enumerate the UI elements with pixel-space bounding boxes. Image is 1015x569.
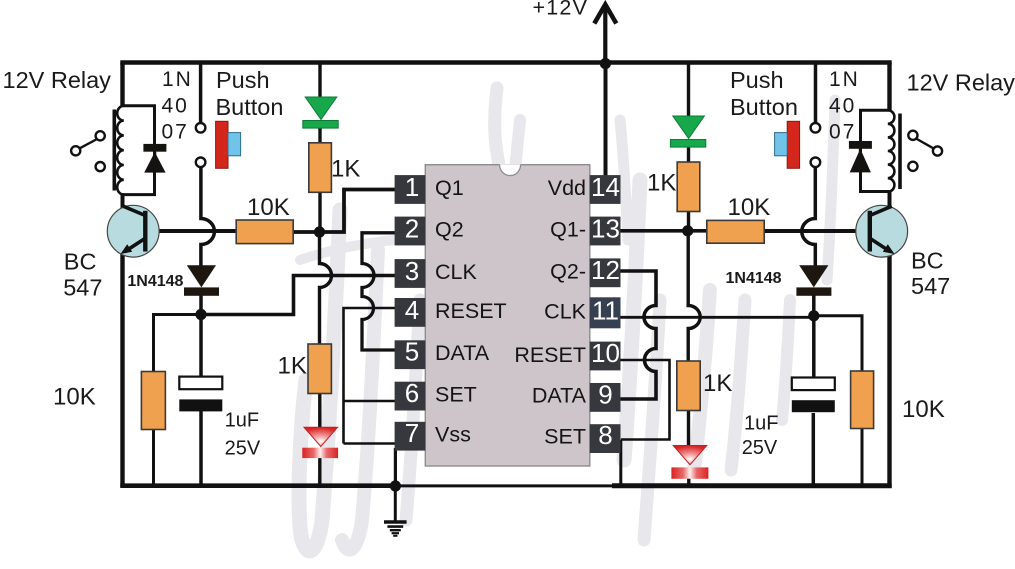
wire left push button bottom to 1N4148 (201, 167, 215, 266)
resistor R8 10K right vertical (851, 371, 874, 429)
wire right upper 1K to node D (687, 211, 690, 231)
svg-text:10K: 10K (53, 384, 96, 411)
capacitor C1 left 1uF (179, 377, 222, 412)
wire pin 2 to pin 5 with two hops (362, 233, 395, 350)
wire right push button top (814, 63, 818, 124)
svg-text:10K: 10K (902, 396, 945, 423)
wire pin 3 CLK to node A (206, 276, 395, 315)
wire left 1N4148 to node A to capacitor (199, 295, 203, 378)
wire pin 8 down to bottom rail (619, 440, 622, 487)
transistor Q2 BC547 right (856, 205, 908, 257)
IC pin labels (435, 176, 587, 449)
wire pin 6 SET to ground bus (344, 400, 396, 403)
svg-text:1N4148: 1N4148 (726, 270, 782, 287)
wire left transistor base with hop (144, 229, 237, 233)
wire top rail to right green LED (687, 63, 690, 117)
wire 1N4007 left lead (153, 152, 156, 173)
wire right transistor emitter to bottom rail (887, 251, 891, 488)
wire right capacitor to bottom rail (812, 413, 816, 488)
LED green left (303, 97, 338, 128)
wire left transistor emitter to bottom rail (120, 251, 124, 488)
svg-text:1uF: 1uF (744, 413, 778, 435)
relay RL2 right box (861, 110, 890, 191)
svg-text:40: 40 (162, 95, 189, 118)
relay RL1 core bar (113, 110, 117, 191)
relay RL1 coil (117, 106, 124, 195)
svg-text:8: 8 (598, 420, 612, 450)
svg-text:1N: 1N (162, 68, 193, 91)
capacitor C2 right 1uF (792, 378, 835, 413)
wire right 1N4148 to node C to capacitor (812, 295, 816, 379)
relay RL1 contacts (71, 131, 105, 171)
diode D3 1N4007 right (849, 141, 872, 172)
wire bottom rail middle thin (396, 484, 612, 487)
wire left border top stub (120, 63, 124, 108)
svg-text:12V Relay: 12V Relay (907, 70, 1015, 96)
wire right red LED to bottom rail (687, 478, 690, 488)
svg-text:Button: Button (216, 94, 284, 120)
wire pin 12 to pin 9 with two hops (621, 271, 657, 399)
svg-text:25V: 25V (742, 437, 778, 459)
svg-text:547: 547 (63, 275, 102, 301)
resistor R7 1K right lower (677, 361, 700, 411)
svg-text:1N4148: 1N4148 (127, 273, 183, 290)
svg-text:547: 547 (911, 273, 950, 299)
LED red right (671, 446, 708, 479)
wire +12V arrow stem (603, 8, 607, 63)
+12V junction dot (600, 58, 611, 69)
svg-text:Q1-: Q1- (550, 218, 586, 242)
node C junction dot right (808, 310, 819, 321)
wire right 10K to transistor base with hop (764, 229, 871, 233)
svg-text:40: 40 (829, 95, 856, 118)
svg-text:1N: 1N (829, 68, 860, 91)
svg-text:SET: SET (544, 425, 586, 449)
svg-text:10: 10 (591, 338, 620, 368)
svg-text:13: 13 (591, 214, 620, 244)
wire left push button top (199, 63, 203, 124)
diode D1 1N4007 left (143, 144, 166, 173)
resistor R4 1K left lower (308, 344, 331, 394)
push button PB2 right (775, 121, 821, 168)
svg-text:11: 11 (592, 295, 619, 325)
wire node A to left 10K vertical (154, 315, 203, 373)
svg-text:7: 7 (405, 418, 419, 448)
wire left relay to transistor collector (121, 195, 125, 209)
svg-text:5: 5 (405, 337, 419, 367)
svg-text:+12V: +12V (533, 0, 589, 20)
node B junction dot left 10K (314, 226, 325, 237)
svg-text:DATA: DATA (435, 341, 490, 365)
svg-text:9: 9 (598, 380, 612, 410)
IC U1 notch (500, 164, 521, 175)
svg-text:RESET: RESET (435, 299, 507, 323)
svg-text:25V: 25V (225, 438, 261, 460)
svg-text:10K: 10K (728, 194, 771, 221)
resistor R5 1K right upper (677, 162, 700, 212)
svg-text:SET: SET (435, 383, 477, 407)
IC pin boxes left (395, 175, 426, 450)
wire 1N4007 right lead (859, 149, 862, 173)
wire right lower 1K to red LED (687, 411, 690, 446)
wire node B down with hop to left lower 1K (320, 232, 332, 345)
svg-text:12V Relay: 12V Relay (3, 67, 112, 93)
IC pin boxes right (590, 175, 621, 453)
relay RL2 contacts (908, 131, 942, 171)
relay RL2 coil (888, 110, 895, 192)
wire node D to right 10K horizontal (688, 229, 707, 233)
wire left lower 1K to red LED (318, 393, 321, 429)
wire right relay to transistor collector (888, 191, 892, 209)
svg-text:Push: Push (730, 67, 784, 93)
wire left capacitor to bottom rail (199, 411, 203, 488)
svg-text:Button: Button (730, 94, 798, 120)
wire right push button bottom to right 1N4148 (802, 167, 816, 266)
push button PB1 left (196, 121, 241, 168)
ground junction dot (390, 480, 401, 491)
svg-text:07: 07 (829, 120, 856, 143)
svg-text:Vdd: Vdd (548, 176, 586, 200)
wire left 10K vertical to bottom rail (152, 429, 155, 488)
svg-text:3: 3 (405, 256, 419, 286)
resistor R6 10K right horizontal (707, 220, 764, 243)
wire Vdd drop to pin 14 (604, 63, 608, 177)
wire pin 10 to pin 8 (621, 360, 670, 440)
wire bottom rail left thick (120, 483, 396, 488)
node D junction dot right 10K (682, 225, 693, 236)
svg-text:CLK: CLK (544, 299, 586, 323)
diode D2 1N4148 left (184, 265, 219, 296)
svg-text:RESET: RESET (514, 343, 586, 367)
WATERMARK (299, 88, 835, 551)
svg-text:14: 14 (591, 172, 620, 202)
IC U1 body (425, 165, 590, 466)
svg-text:1K: 1K (331, 155, 360, 182)
wire left red LED to bottom rail (318, 456, 321, 488)
+12V arrowhead (594, 5, 616, 24)
svg-text:Q2-: Q2- (550, 260, 586, 284)
svg-text:4: 4 (405, 295, 419, 325)
IC pin numbers (405, 172, 620, 450)
svg-text:1: 1 (405, 172, 419, 202)
svg-text:Q1: Q1 (435, 176, 464, 200)
resistor R2 1K left upper (309, 143, 332, 193)
svg-text:1K: 1K (278, 353, 307, 380)
wire left 10K to node B to pin 1 (293, 190, 396, 233)
svg-text:6: 6 (405, 378, 419, 408)
LED red left (302, 427, 338, 458)
relay RL2 core bar (898, 114, 902, 190)
svg-text:07: 07 (162, 120, 189, 143)
wire left upper 1K to node B (318, 192, 321, 233)
ground (384, 522, 407, 536)
wire +12V top rail (120, 60, 891, 65)
wire node C to right 10K vertical (813, 316, 862, 372)
resistor R1 10K left horizontal (236, 220, 293, 244)
svg-text:CLK: CLK (435, 260, 477, 284)
wire right green LED to upper 1K (687, 145, 690, 163)
svg-text:BC: BC (64, 249, 97, 275)
svg-text:1uF: 1uF (225, 410, 259, 432)
svg-text:DATA: DATA (532, 384, 587, 408)
wire left green LED to upper 1K (318, 127, 321, 144)
wire top rail to left green LED (318, 63, 321, 98)
wire pin 7 Vss to ground bus (344, 442, 397, 445)
svg-text:1K: 1K (703, 370, 732, 397)
svg-text:12: 12 (591, 255, 620, 285)
relay RL1 left box (123, 106, 155, 195)
svg-text:1K: 1K (647, 170, 676, 197)
wire bottom rail right thick (612, 483, 892, 488)
wire pin 13 to node D (621, 229, 688, 233)
svg-text:BC: BC (911, 248, 944, 274)
transistor Q1 BC547 left (107, 205, 159, 257)
svg-text:Push: Push (216, 67, 270, 93)
LED green right (670, 116, 705, 147)
wire pin 11 CLK to node C (621, 316, 814, 319)
wire pin 4 RESET left and down (344, 308, 396, 444)
resistor R3 10K left vertical (141, 372, 165, 430)
wire right border top stub (887, 63, 891, 112)
svg-text:Q2: Q2 (435, 218, 464, 242)
svg-text:Vss: Vss (435, 423, 471, 447)
diode D4 1N4148 right (796, 265, 831, 296)
wire ground stub (394, 486, 397, 521)
node A junction dot left (195, 309, 206, 320)
wire right 10K vertical to bottom rail (861, 428, 864, 488)
svg-text:2: 2 (405, 214, 419, 244)
svg-text:10K: 10K (247, 194, 290, 221)
wire pin 7 down to bottom rail (394, 448, 397, 486)
wire node D down with hop to right lower 1K (688, 231, 700, 362)
